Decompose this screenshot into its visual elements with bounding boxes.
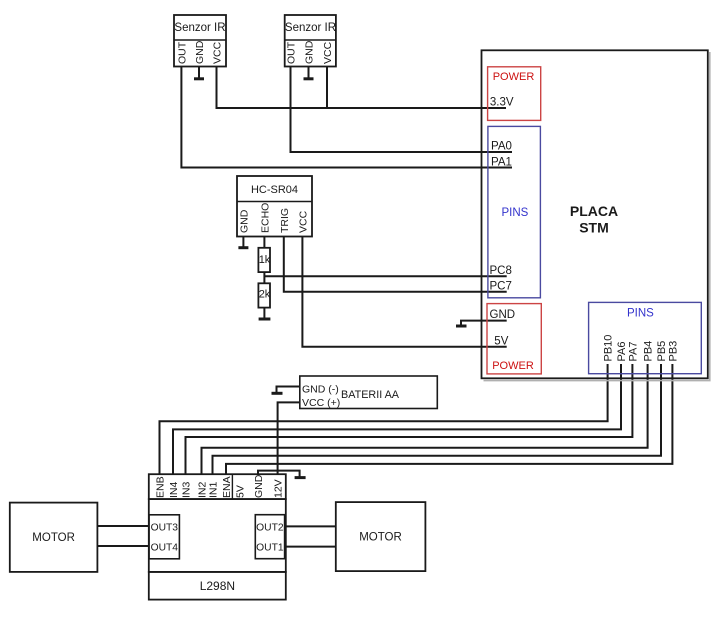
svg-text:MOTOR: MOTOR (32, 532, 75, 544)
svg-text:POWER: POWER (493, 71, 535, 83)
svg-text:Senzor IR: Senzor IR (174, 22, 225, 34)
svg-text:PINS: PINS (501, 207, 528, 219)
svg-text:STM: STM (579, 220, 609, 236)
svg-text:GND: GND (304, 40, 316, 64)
svg-text:PB5: PB5 (656, 341, 668, 362)
svg-text:3.3V: 3.3V (490, 97, 514, 109)
svg-text:PA6: PA6 (616, 342, 628, 362)
svg-text:PB10: PB10 (603, 335, 615, 362)
svg-text:PA0: PA0 (491, 141, 512, 153)
svg-text:VCC: VCC (212, 41, 224, 64)
svg-text:VCC (+): VCC (+) (302, 397, 340, 409)
svg-text:BATERII AA: BATERII AA (341, 389, 400, 401)
svg-text:L298N: L298N (200, 579, 235, 593)
svg-text:VCC: VCC (297, 210, 309, 233)
svg-text:5V: 5V (235, 485, 247, 498)
svg-text:PLACA: PLACA (570, 203, 618, 219)
svg-text:PB4: PB4 (643, 341, 655, 362)
svg-text:PC7: PC7 (490, 281, 512, 293)
svg-text:ENB: ENB (155, 476, 167, 498)
svg-text:PA7: PA7 (627, 342, 639, 362)
svg-text:OUT1: OUT1 (256, 543, 284, 554)
svg-text:IN4: IN4 (168, 482, 180, 499)
svg-text:GND: GND (238, 209, 250, 233)
svg-text:ENA: ENA (221, 476, 233, 498)
svg-text:OUT: OUT (176, 41, 188, 64)
svg-text:GND: GND (490, 309, 516, 321)
svg-text:OUT4: OUT4 (151, 543, 179, 554)
svg-text:PB3: PB3 (667, 341, 679, 362)
svg-text:TRIG: TRIG (279, 208, 291, 233)
svg-text:5V: 5V (494, 335, 508, 347)
svg-text:12V: 12V (273, 479, 285, 498)
svg-text:GND: GND (253, 474, 265, 498)
svg-text:OUT2: OUT2 (256, 523, 284, 534)
svg-text:IN3: IN3 (181, 482, 193, 499)
svg-text:ECHO: ECHO (259, 203, 271, 233)
svg-text:GND: GND (194, 40, 206, 64)
svg-text:POWER: POWER (492, 360, 534, 372)
svg-text:OUT3: OUT3 (151, 523, 179, 534)
svg-text:HC-SR04: HC-SR04 (251, 184, 298, 196)
svg-text:VCC: VCC (322, 41, 334, 64)
svg-text:PINS: PINS (627, 308, 654, 320)
svg-text:PA1: PA1 (491, 157, 512, 169)
svg-text:OUT: OUT (286, 41, 298, 64)
svg-text:Senzor IR: Senzor IR (285, 22, 336, 34)
svg-text:1k: 1k (259, 254, 271, 266)
svg-text:PC8: PC8 (490, 265, 512, 277)
svg-text:GND (-): GND (-) (302, 384, 339, 396)
svg-text:MOTOR: MOTOR (359, 532, 402, 544)
svg-text:2k: 2k (259, 289, 271, 301)
svg-text:IN1: IN1 (208, 482, 220, 499)
